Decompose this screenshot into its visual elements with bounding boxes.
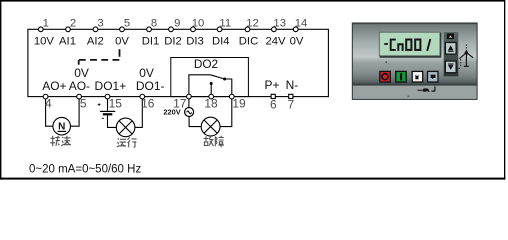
DO2 box [171,58,249,97]
terminal 12 [245,27,250,32]
svg-text:AO-: AO- [69,79,90,93]
fault lamp X [204,120,217,133]
svg-text:DO1+: DO1+ [95,79,127,93]
LCD digit n [398,44,402,51]
wire meter right (terminal 5) [70,97,79,127]
LCD digit C [391,40,396,50]
relay blade junction dot [223,78,226,81]
battery short plate [103,113,113,115]
up glyph [448,45,453,50]
LCD digit 1 [427,39,430,51]
svg-text:8: 8 [151,17,157,29]
svg-text:N: N [58,121,65,132]
frame left [0,0,1,180]
svg-text:DI1: DI1 [142,35,160,47]
battery long plate [100,110,115,112]
relay common stub (terminal 18) [210,84,212,97]
bottom terminals (circles) [43,94,234,99]
dashed 0V link horizontal dashes [79,59,120,61]
LCD digit 0b [415,40,420,50]
svg-text:1: 1 [43,17,49,29]
panel body [352,23,477,99]
arrows dark recess [444,32,459,76]
terminal 14 [293,27,298,32]
battery minus sign [102,117,104,119]
svg-text:DO2: DO2 [194,57,218,71]
svg-text:DI4: DI4 [212,35,230,47]
gray reverse button [428,71,439,82]
terminal 5 [120,27,125,32]
relay contact DO2: wire from 17 up and over [189,75,211,97]
svg-text:DI3: DI3 [186,35,204,47]
svg-text:5: 5 [124,17,130,29]
svg-text:0V: 0V [115,35,129,47]
terminal 4 [43,94,48,99]
dashed 0V link vertical dash [119,49,121,57]
battery plus sign [98,103,101,106]
svg-text:P+: P+ [264,78,279,92]
svg-text:AI2: AI2 [87,35,104,47]
white button glyph [415,75,418,80]
LCD digit minus [384,43,388,45]
LCD digit 0a [406,40,411,50]
svg-text:N-: N- [286,78,299,92]
svg-text:AO+: AO+ [42,79,66,93]
frame bottom [0,178,505,180]
LCD shadow right/bottom [380,33,441,57]
up button [445,43,456,55]
svg-text:DO1-: DO1- [136,79,165,93]
meter N underline [58,130,67,132]
jog icon (branch arrow) [464,49,469,54]
svg-text:17: 17 [173,96,187,110]
dashed 0V link corner tick [78,60,80,65]
main terminal box [28,29,329,96]
svg-text:DI2: DI2 [164,35,182,47]
green button I glyph [400,73,402,80]
wire terminal 16 to run lamp [135,97,142,128]
relay common dot [210,82,213,85]
terminal 9 [169,27,174,32]
wire battery to run lamp [108,115,117,127]
svg-text:2: 2 [70,17,76,29]
wire meter left (terminal 4) [46,97,54,127]
top terminals (circles) [38,27,298,32]
svg-text:24V: 24V [265,35,286,47]
terminal 10 [191,27,196,32]
run lamp X [119,121,132,134]
terminal 17 [187,94,192,99]
svg-text:DIC: DIC [239,35,258,47]
svg-text:6: 6 [270,97,277,111]
svg-text:9: 9 [174,17,180,29]
mid 0V labels [74,66,154,80]
red button O glyph [382,74,388,80]
frame right [504,0,505,180]
terminal 1 [38,27,43,32]
LCD display [379,32,440,56]
terminal 3 [93,27,98,32]
battery wire from terminal 15 [107,97,109,111]
relay blade [210,75,231,97]
run lamp circle [116,118,135,137]
terminal 5b [77,94,82,99]
small dot on panel [386,62,387,63]
bottom terminal numbers [45,96,295,111]
terminal 16 [140,94,145,99]
display mini icon [447,33,454,39]
svg-text:7: 7 [288,97,295,111]
wire terminal 17 down [188,97,190,108]
label 转速 (speed) [50,136,71,147]
terminal 8 [147,27,152,32]
top terminal labels [34,35,304,47]
terminal 13 [272,27,277,32]
wire terminal 19 to fault lamp [220,97,232,127]
svg-text:3: 3 [97,17,103,29]
terminal 7 (square) [289,94,293,98]
svg-text:19: 19 [232,96,246,110]
svg-text:AI1: AI1 [59,35,76,47]
row2 labels [42,78,298,93]
terminal 2 [66,27,71,32]
svg-text:10V: 10V [34,35,55,47]
white function button [412,71,423,82]
wire AC source to fault lamp [189,116,201,126]
green run button [396,71,407,82]
terminal 19 [229,94,234,99]
down glyph [448,65,453,70]
terminal 18 [209,94,214,99]
down button [445,61,456,73]
frame top [0,0,505,2]
label 故障 (fault) [204,136,224,148]
top terminal numbers [43,17,308,29]
AC sine [187,111,192,114]
hand jog icon below buttons [418,89,422,91]
terminal 11 [217,27,222,32]
svg-text:0~20 mA=0~50/60 Hz: 0~20 mA=0~50/60 Hz [29,164,141,176]
meter circle (speed indicator) [53,117,71,135]
svg-text:15: 15 [109,96,123,110]
label 运行 (run) [117,137,137,147]
fault lamp circle [201,117,220,136]
terminal 6 (square) [271,94,275,98]
gray button glyph [431,75,436,80]
red stop button [380,71,391,82]
svg-text:0V: 0V [290,35,304,47]
AC source circle 220V [185,108,194,117]
terminal 15 [105,94,110,99]
